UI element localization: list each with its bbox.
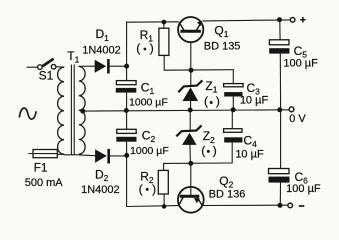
svg-text:(: ( (139, 182, 143, 196)
svg-text:(: ( (201, 143, 205, 157)
svg-text:(: ( (136, 41, 140, 55)
svg-text:(: ( (204, 94, 208, 108)
svg-text:F1: F1 (34, 161, 48, 175)
svg-text:): ) (216, 94, 220, 108)
svg-text:10 µF: 10 µF (240, 94, 269, 106)
svg-text:10 µF: 10 µF (235, 148, 264, 160)
svg-text:1000 µF: 1000 µF (129, 96, 168, 108)
svg-text:1N4002: 1N4002 (82, 45, 121, 57)
svg-text:BD 135: BD 135 (204, 40, 241, 52)
svg-text:): ) (150, 41, 154, 55)
svg-text:100 µF: 100 µF (283, 58, 318, 70)
svg-text:1N4002: 1N4002 (81, 184, 120, 196)
svg-text:): ) (213, 143, 217, 157)
svg-text:S1: S1 (39, 69, 54, 83)
svg-text:1000 µF: 1000 µF (130, 145, 169, 157)
svg-text:BD 136: BD 136 (209, 189, 246, 201)
svg-text:500 mA: 500 mA (25, 177, 64, 189)
svg-text:0 V: 0 V (289, 113, 306, 125)
svg-text:): ) (152, 182, 156, 196)
svg-text:100 µF: 100 µF (286, 183, 321, 195)
